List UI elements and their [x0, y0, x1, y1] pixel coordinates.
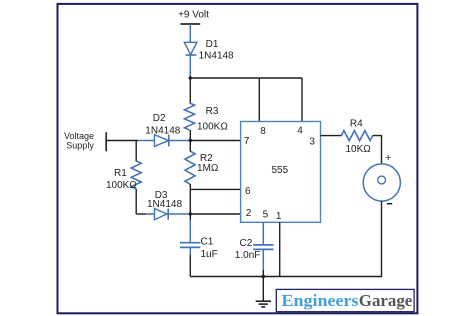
- junction ground node: [262, 275, 266, 279]
- wire: speaker bottom down and along bottom bus: [190, 201, 381, 277]
- svg-text:C1: C1: [201, 236, 214, 247]
- resistor R1 100K: [106, 141, 141, 215]
- svg-text:Garage: Garage: [359, 291, 413, 310]
- svg-text:Supply: Supply: [66, 141, 94, 151]
- svg-text:2: 2: [246, 208, 252, 219]
- svg-text:Engineers: Engineers: [282, 291, 359, 310]
- wire: pin 1 stub down to bus: [279, 222, 281, 276]
- svg-text:1MΩ: 1MΩ: [197, 163, 219, 174]
- svg-text:5: 5: [263, 209, 269, 220]
- svg-text:+: +: [385, 152, 391, 164]
- wire: vertical from top node to R3: [189, 76, 191, 104]
- wire: blue through D2 to center node: [138, 140, 190, 142]
- diode D1 1N4148: [184, 39, 234, 62]
- wire: pin 5 stub (blue) to C2: [262, 222, 264, 244]
- wire: C2 bottom to bus: [262, 249, 264, 270]
- logo EngineersGarage: [276, 289, 414, 311]
- wire: R1 bottom to D3: [136, 213, 146, 215]
- diode D3 1N4148: [147, 190, 182, 220]
- resistor R4 10K: [341, 118, 372, 154]
- wire: rail to pin 2: [190, 213, 240, 215]
- wire: vertical down to pin2/D3 row: [189, 189, 191, 214]
- wire: blue through D3 to rail: [146, 213, 190, 215]
- wire: rail down to C1 (blue lead): [189, 214, 191, 220]
- svg-text:1: 1: [276, 211, 282, 222]
- resistor R3 100K: [185, 103, 229, 132]
- svg-text:C2: C2: [240, 238, 253, 249]
- svg-text:1uF: 1uF: [201, 249, 218, 260]
- diode D2 1N4148: [145, 113, 180, 146]
- svg-text:R3: R3: [206, 106, 219, 117]
- wire from +9V rail through D1 down to top node (blue): [189, 24, 191, 77]
- svg-text:100KΩ: 100KΩ: [197, 121, 228, 132]
- svg-text:R1: R1: [114, 168, 127, 179]
- svg-text:3: 3: [309, 136, 315, 147]
- junction top node: [189, 76, 192, 79]
- svg-text:4: 4: [297, 126, 303, 137]
- svg-text:10KΩ: 10KΩ: [346, 144, 372, 155]
- wire: drop to pin 8: [258, 78, 260, 122]
- wire: pin 3 to R4: [321, 135, 342, 137]
- terminal: Voltage Supply input: [64, 131, 106, 152]
- wire: R2 bottom to pin6 node: [189, 184, 191, 189]
- wire: center node to pin 7: [190, 140, 240, 142]
- wire: drop to pin 4: [301, 78, 303, 122]
- svg-text:D2: D2: [153, 113, 166, 124]
- svg-text:555: 555: [271, 165, 288, 176]
- svg-text:7: 7: [244, 136, 250, 147]
- svg-text:1N4148: 1N4148: [147, 199, 182, 210]
- junction center node: [189, 139, 192, 142]
- svg-text:Voltage: Voltage: [64, 131, 94, 141]
- svg-text:+9 Volt: +9 Volt: [178, 10, 209, 21]
- svg-text:8: 8: [260, 126, 266, 137]
- svg-text:1N4148: 1N4148: [145, 126, 180, 137]
- svg-text:R4: R4: [350, 118, 363, 129]
- svg-text:D1: D1: [206, 39, 219, 50]
- wire: top horizontal to pin8/pin4 branches: [190, 77, 302, 79]
- svg-text:6: 6: [245, 186, 251, 197]
- ground: [256, 277, 271, 307]
- wire: R2 top lead: [189, 141, 191, 152]
- svg-text:1.0nF: 1.0nF: [235, 250, 261, 261]
- svg-text:100KΩ: 100KΩ: [106, 180, 137, 191]
- capacitor C1 1uF: [180, 236, 218, 260]
- svg-text:1N4148: 1N4148: [199, 51, 234, 62]
- power rail +9 Volt: [178, 10, 209, 25]
- wire: R3 bottom to node: [189, 130, 191, 141]
- wire: R4 to speaker top: [373, 136, 382, 165]
- junction D3 node: [189, 212, 192, 215]
- wire: C1 bottom to ground bus: [189, 247, 191, 255]
- 555 timer U1: [241, 122, 321, 223]
- wire: node to pin 6: [190, 188, 240, 190]
- speaker / buzzer LS1: [363, 152, 400, 204]
- wire: terminal to R1 junction: [106, 140, 138, 142]
- capacitor C2 1.0nF: [235, 238, 274, 261]
- resistor R2 1M: [185, 151, 219, 184]
